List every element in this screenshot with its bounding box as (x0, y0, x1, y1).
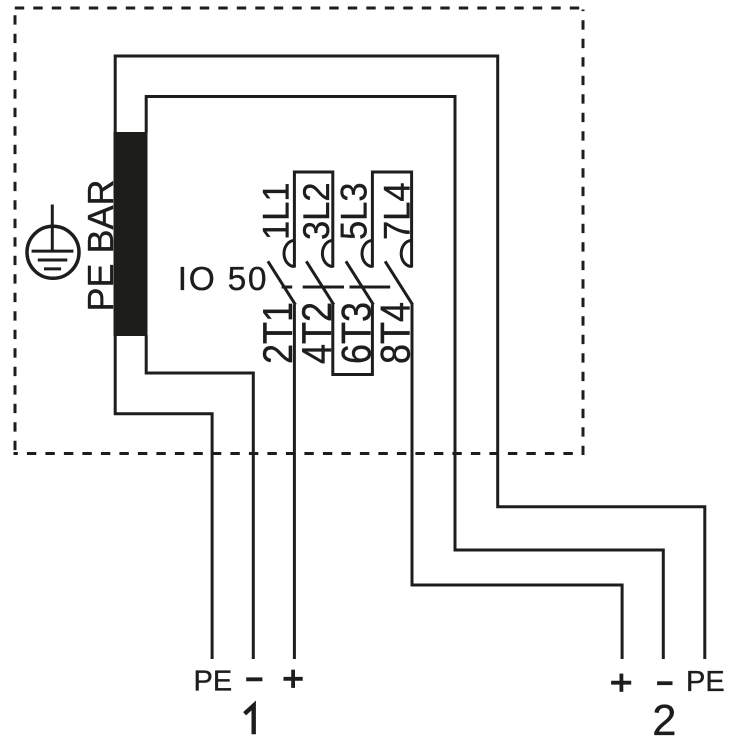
svg-text:8T4: 8T4 (373, 302, 419, 364)
svg-text:7L4: 7L4 (376, 182, 418, 240)
svg-text:2: 2 (652, 697, 676, 743)
svg-text:PE BAR: PE BAR (80, 179, 121, 311)
svg-text:IO 50: IO 50 (178, 261, 268, 298)
svg-text:PE: PE (194, 665, 233, 697)
svg-text:5L3: 5L3 (333, 182, 375, 240)
svg-text:3L2: 3L2 (296, 182, 338, 240)
svg-text:PE: PE (686, 666, 725, 698)
svg-text:1L1: 1L1 (255, 182, 297, 240)
